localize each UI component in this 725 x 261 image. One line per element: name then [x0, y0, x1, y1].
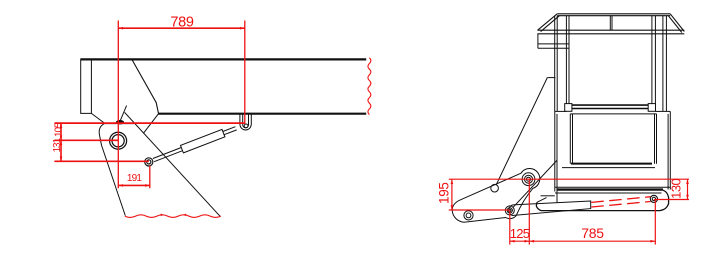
dim arrows 130	[686, 179, 689, 184]
ext 125 left	[509, 210, 511, 244]
bracket break line (red wavy)	[125, 215, 221, 218]
pivot upper link line	[120, 106, 127, 122]
end cap to bracket diagonal	[91, 113, 104, 123]
ext 125 right / 785 left	[528, 179, 530, 244]
dim arrows 191	[118, 184, 123, 187]
floor left top line	[541, 195, 555, 197]
extension line y161 (lower pin center)	[54, 160, 148, 162]
extension line y210 (bottom hole level)	[449, 209, 510, 211]
lower strut to bottom hole	[513, 161, 557, 208]
rear pin	[650, 195, 657, 202]
dim arrows 195	[451, 179, 454, 184]
dimension line 130	[687, 179, 689, 199]
arm hidden part (red dashed)	[591, 197, 650, 203]
top rail right slope	[670, 14, 684, 32]
rocker middle hole	[491, 184, 499, 192]
middle short post	[609, 16, 611, 31]
bracket plate top edge	[105, 123, 135, 125]
basket shoulders	[555, 110, 567, 112]
vertical dimension line 105/131	[60, 123, 62, 161]
second rail	[537, 29, 684, 31]
boom bottom edge	[158, 113, 366, 115]
svg-text:130: 130	[669, 178, 684, 198]
rocker bottom-right hole	[505, 206, 514, 215]
floor left corner line	[537, 198, 547, 203]
basket posts	[554, 16, 556, 112]
pivot pin top (filled)	[116, 120, 124, 124]
dimension line 191	[118, 184, 150, 186]
upper strut to middle hole	[496, 78, 547, 185]
bracket plate left edge	[99, 123, 125, 215]
cylinder upper lug inner	[243, 114, 249, 128]
svg-text:191: 191	[127, 173, 143, 184]
cylinder rod (lower)	[153, 148, 183, 162]
rocker plate outline	[452, 169, 540, 223]
top guard rail	[557, 13, 670, 15]
dim 191 right extension	[149, 166, 151, 189]
extension line y179 (top hole level)	[449, 178, 689, 180]
svg-text:195: 195	[437, 182, 452, 204]
svg-text:105: 105	[54, 122, 65, 137]
basket body left edge	[554, 111, 556, 191]
boom break line (red wavy)	[368, 58, 371, 115]
cylinder lower pin hole inner	[147, 160, 151, 164]
bracket gusset line	[143, 114, 158, 134]
extension line right of dim 789	[244, 21, 246, 124]
basket body right edge	[669, 111, 671, 189]
top rail left slope	[538, 14, 558, 30]
mid rail	[572, 104, 648, 106]
pivot hole outer	[110, 132, 127, 149]
dimension line 125+785	[510, 240, 656, 242]
ext 785 right	[654, 200, 656, 245]
rocker bottom-left hole	[464, 211, 473, 220]
extension line y140 (pivot hole center)	[54, 139, 118, 141]
cylinder upper lug pin	[244, 124, 248, 128]
cylinder rod (upper)	[223, 127, 237, 135]
dim arrows 125 785	[510, 240, 515, 243]
cylinder upper lug outer	[240, 114, 251, 130]
floor top thick line	[557, 188, 664, 190]
inner panel bottom thick	[571, 163, 652, 165]
link arm	[509, 201, 591, 216]
dim arrows 789	[118, 27, 123, 30]
dimension line 789	[118, 27, 245, 29]
boom left end cap	[81, 59, 92, 114]
floor mid line	[555, 192, 662, 194]
dim arrows 105/131	[60, 123, 63, 128]
mid rail left block	[565, 104, 572, 112]
cylinder barrel	[181, 129, 225, 153]
svg-text:785: 785	[581, 225, 604, 241]
svg-text:125: 125	[510, 226, 530, 241]
inner panel bottom thin	[562, 167, 655, 169]
extension line left of dim 789	[117, 21, 119, 189]
svg-text:789: 789	[170, 15, 194, 31]
basket inner panel	[570, 114, 656, 164]
left step bracket	[538, 34, 569, 49]
mid rail right block	[648, 104, 655, 112]
pivot hole inner	[112, 135, 124, 147]
boom top edge	[81, 58, 367, 60]
dimension line 195	[451, 179, 453, 210]
basket body bottom line	[555, 186, 671, 188]
bracket plate long right diagonal	[125, 112, 221, 216]
extension line y123 (pivot top level)	[54, 122, 244, 124]
upper strut stub	[547, 77, 555, 79]
svg-text:131: 131	[52, 137, 63, 152]
cylinder lower pin hole outer	[145, 158, 153, 166]
floor bottom contour	[536, 190, 668, 210]
rocker top-right hole	[522, 173, 535, 186]
extension line y199.5 (pin level)	[654, 199, 689, 201]
boom underside taper	[132, 60, 159, 114]
